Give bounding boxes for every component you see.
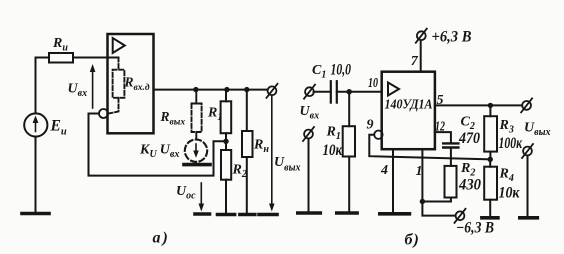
resistor R2 (b) xyxy=(445,159,457,202)
svg-text:1: 1 xyxy=(416,164,423,179)
output wire xyxy=(154,89,268,91)
wire E_i top to R_i xyxy=(36,58,50,114)
svg-text:4: 4 xyxy=(380,163,388,178)
input terminal circle on box edge xyxy=(99,109,108,118)
ground bar xyxy=(298,211,321,215)
svg-text:470: 470 xyxy=(458,130,480,147)
svg-text:140УД1А: 140УД1А xyxy=(385,97,433,112)
ground bar xyxy=(218,213,235,217)
feedback wire xyxy=(89,114,227,176)
svg-text:10,0: 10,0 xyxy=(331,62,352,79)
input common terminal xyxy=(303,127,314,141)
pin 9 circle xyxy=(374,131,382,139)
wire output common to ground xyxy=(527,156,529,217)
op-amp triangle B xyxy=(388,83,399,96)
output terminal xyxy=(267,84,278,98)
svg-text:430: 430 xyxy=(458,177,481,194)
svg-text:10: 10 xyxy=(368,76,378,91)
pin 12 wire xyxy=(435,132,451,143)
ground bar xyxy=(380,212,410,216)
U_fb arrow xyxy=(199,183,205,212)
op-amp box A xyxy=(108,34,154,133)
source E_i arrow xyxy=(33,116,39,132)
output terminal xyxy=(521,98,532,112)
resistor R_out (dashed) xyxy=(192,90,202,140)
U_in arrow xyxy=(90,64,96,108)
controlled source K_U*U_in xyxy=(185,140,207,162)
resistor R_load xyxy=(242,90,253,214)
svg-text:R1: R1 xyxy=(326,125,341,143)
svg-text:Rн: Rн xyxy=(253,138,269,156)
pin 1 wire xyxy=(421,149,423,201)
node xyxy=(488,157,493,162)
ground bar xyxy=(259,213,277,217)
U_out annotation line xyxy=(269,95,275,211)
op-amp box B xyxy=(382,72,435,150)
svg-text:7: 7 xyxy=(411,54,419,69)
svg-text:Rвых: Rвых xyxy=(160,109,186,128)
svg-text:С1: С1 xyxy=(312,63,326,81)
output common terminal xyxy=(522,144,533,158)
svg-text:а): а) xyxy=(153,230,170,247)
controlled source arrow xyxy=(193,144,199,158)
node xyxy=(244,87,249,92)
resistor R4 xyxy=(484,159,497,217)
resistor R_i xyxy=(49,53,73,63)
svg-text:б): б) xyxy=(405,232,420,249)
svg-text:−6,3 В: −6,3 В xyxy=(456,220,494,237)
svg-text:+6,3 В: +6,3 В xyxy=(432,29,472,46)
ground E_i xyxy=(22,212,49,216)
capacitor C2 xyxy=(443,143,458,147)
svg-text:R3: R3 xyxy=(499,118,514,136)
controlled source ground xyxy=(195,162,197,164)
wire E_i bottom xyxy=(35,137,37,213)
resistor R1 xyxy=(221,90,232,142)
input terminal xyxy=(304,85,315,99)
node xyxy=(488,103,493,108)
svg-text:Rвх.д: Rвх.д xyxy=(124,75,150,94)
wire input common to ground xyxy=(308,139,310,213)
+6.3V terminal xyxy=(416,29,427,43)
svg-text:10к: 10к xyxy=(499,185,521,202)
source E_i xyxy=(24,113,47,136)
node xyxy=(347,89,352,94)
svg-text:100к: 100к xyxy=(499,135,523,152)
ground bar xyxy=(337,211,357,215)
svg-text:Uвх: Uвх xyxy=(300,104,320,122)
resistor R3 xyxy=(484,105,497,159)
svg-text:10к: 10к xyxy=(323,142,343,159)
svg-text:R4: R4 xyxy=(499,167,514,185)
svg-text:Еи: Еи xyxy=(50,118,67,138)
node xyxy=(224,87,229,92)
svg-text:R2: R2 xyxy=(232,163,247,181)
svg-text:Rи: Rи xyxy=(52,36,68,54)
C2 bottom lead xyxy=(450,148,452,159)
svg-text:5: 5 xyxy=(437,93,444,108)
node xyxy=(193,87,198,92)
svg-text:Uвых: Uвых xyxy=(524,121,551,139)
pin 7 wire xyxy=(420,41,422,72)
wire node to R2 bottom xyxy=(422,201,451,203)
ground bar xyxy=(240,213,255,217)
pin 9 feedback wire xyxy=(369,135,490,160)
resistor R_in.d (dashed) xyxy=(109,58,125,114)
svg-text:КUUвх: КUUвх xyxy=(139,143,179,161)
node xyxy=(420,199,425,204)
wire node to -6.3V terminal xyxy=(422,202,455,216)
resistor R1 (b) xyxy=(343,92,355,213)
-6.3V terminal xyxy=(455,209,466,223)
ground bar xyxy=(520,216,538,220)
op-amp triangle A xyxy=(113,38,125,53)
capacitor C1 xyxy=(331,81,337,102)
wire to C1 xyxy=(314,91,331,93)
svg-text:9: 9 xyxy=(367,118,374,133)
ground bar xyxy=(482,216,498,220)
node xyxy=(223,139,228,144)
svg-text:Uвх: Uвх xyxy=(68,82,88,100)
wire C1 to pin10 xyxy=(337,91,382,93)
resistor R2 xyxy=(221,141,231,213)
svg-text:12: 12 xyxy=(435,120,445,135)
wire R_i to amp input xyxy=(73,57,119,59)
pin 4 wire xyxy=(392,149,394,213)
pin 5 wire xyxy=(435,104,522,106)
svg-text:Uос: Uос xyxy=(176,184,196,202)
svg-text:Uвых: Uвых xyxy=(274,155,301,174)
ground bar xyxy=(195,212,210,216)
